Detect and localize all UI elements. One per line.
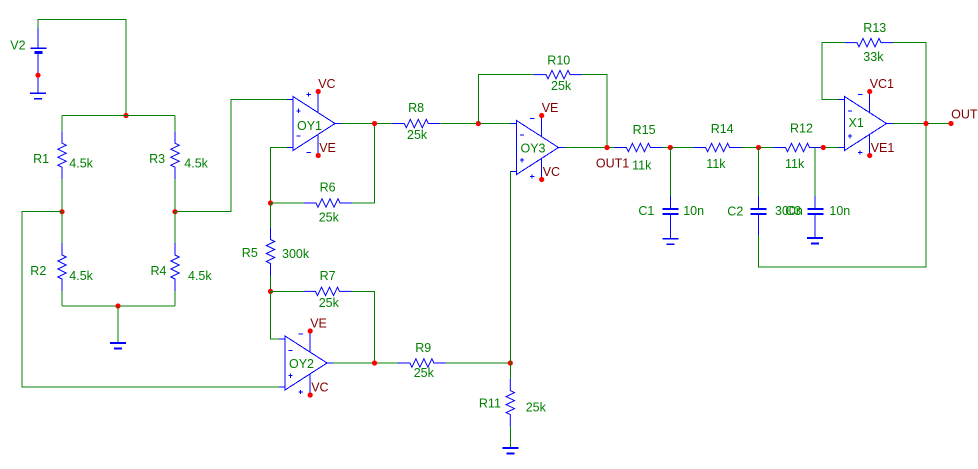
svg-text:4.5k: 4.5k — [188, 269, 212, 283]
svg-text:R1: R1 — [33, 152, 49, 166]
svg-text:V2: V2 — [10, 38, 25, 52]
wire R3 top lead — [174, 116, 176, 132]
wire bridge bottom — [62, 305, 175, 307]
op-amp OY2 inner marks — [288, 349, 292, 351]
junction dot bridge bottom — [115, 303, 120, 308]
power pin dot VC — [539, 177, 544, 182]
svg-text:10n: 10n — [829, 204, 850, 218]
ground below C1 — [669, 237, 671, 240]
wire R1 top lead — [61, 116, 63, 132]
resistor R15 — [614, 143, 662, 151]
ground below C3 — [814, 236, 816, 239]
wire node I down to C3 — [814, 148, 816, 197]
svg-text:OUT1: OUT1 — [596, 157, 629, 171]
svg-text:C1: C1 — [638, 204, 654, 218]
junction dot node E (R5/R7) — [268, 289, 273, 294]
junction dot V2 minus — [35, 73, 40, 78]
wire R14 to R12 — [742, 147, 774, 149]
wire node D up to R10 — [478, 75, 534, 124]
svg-text:25k: 25k — [551, 79, 572, 93]
wire node E to OY2 - input — [271, 291, 280, 339]
wire node E to R7 — [271, 290, 304, 292]
junction dot node H (C2) — [756, 145, 761, 150]
svg-text:R2: R2 — [30, 264, 46, 278]
op-amp OY2 triangle — [285, 336, 327, 390]
svg-text:11k: 11k — [785, 157, 805, 171]
svg-text:25k: 25k — [319, 296, 340, 310]
battery V2 — [37, 28, 39, 48]
svg-text:25k: 25k — [526, 401, 547, 415]
wire R13 to X1 output — [893, 43, 926, 124]
svg-text:OY1: OY1 — [297, 119, 322, 133]
svg-text:R12: R12 — [790, 122, 813, 136]
op-amp OY1 output stub — [335, 123, 341, 125]
op-amp X1 top power pin — [869, 92, 871, 113]
junction dot OY2 output — [372, 360, 377, 365]
svg-text:11k: 11k — [706, 157, 726, 171]
junction dot bridge top node — [123, 113, 128, 118]
wire node B to OY1 + input — [175, 100, 287, 212]
svg-text:OUT: OUT — [951, 108, 978, 122]
wire C2 bottom to X1 output (feedback) — [759, 124, 927, 268]
power pin dot VC — [308, 392, 313, 397]
svg-text:VE1: VE1 — [871, 141, 895, 155]
op-amp OY2 input stubs — [279, 339, 285, 387]
capacitor C2 — [758, 196, 760, 208]
wire R3 bottom lead — [174, 179, 176, 212]
wire R4 bottom lead — [174, 291, 176, 306]
op-amp X1 bottom power pin — [869, 134, 871, 155]
op-amp OY1 input stubs — [287, 100, 293, 148]
svg-text:C3: C3 — [785, 204, 801, 218]
power pin dot VE — [316, 153, 321, 158]
op-amp X1 output stub — [887, 123, 893, 125]
wire R1 bottom lead — [61, 179, 63, 212]
svg-text:R3: R3 — [149, 152, 165, 166]
svg-text:4.5k: 4.5k — [69, 157, 93, 171]
wire node F to R11 — [509, 363, 511, 379]
op-amp X1 triangle — [845, 97, 887, 151]
op-amp OY3 input stubs — [511, 124, 517, 172]
svg-text:VE: VE — [542, 101, 559, 115]
svg-text:VE: VE — [310, 317, 327, 331]
wire OY1 - input to node C — [271, 148, 288, 204]
svg-text:R7: R7 — [320, 269, 336, 283]
ground below R11 — [509, 447, 511, 448]
resistor R14 — [694, 143, 742, 151]
wire R11 to ground — [509, 427, 511, 447]
wire R6 to OY1 output — [352, 124, 375, 204]
op-amp OY3 bottom power pin — [541, 158, 543, 179]
svg-text:33k: 33k — [863, 50, 884, 64]
junction dot OUT terminal — [948, 121, 953, 126]
wire R10 to OY3 output — [582, 75, 607, 148]
op-amp X1 inner marks — [848, 110, 852, 112]
capacitor C1 — [669, 196, 671, 208]
op-amp OY2 bottom power pin — [309, 374, 311, 395]
svg-text:300k: 300k — [282, 247, 310, 261]
svg-text:OY3: OY3 — [521, 142, 546, 156]
svg-text:R14: R14 — [711, 122, 734, 136]
op-amp OY2 top power pin — [309, 331, 311, 352]
power pin dot VE1 — [867, 153, 872, 158]
junction dot node A (R1/R2) — [59, 209, 64, 214]
wire OY3 output — [565, 147, 615, 149]
svg-text:25k: 25k — [414, 366, 435, 380]
wire R12 to X1 + input — [822, 147, 839, 149]
op-amp OY1 bottom power pin — [317, 134, 319, 155]
junction dot OY3 output — [604, 145, 609, 150]
wire node C to R6 — [271, 202, 305, 204]
svg-text:X1: X1 — [849, 116, 864, 130]
wire R2 top lead — [61, 212, 63, 243]
svg-text:11k: 11k — [632, 159, 652, 173]
resistor R3 — [171, 131, 179, 179]
svg-text:VC: VC — [311, 381, 328, 395]
wire X1 output — [893, 123, 952, 125]
capacitor C3 — [814, 196, 816, 208]
resistor R12 — [774, 143, 822, 151]
wire node F to OY3 + input — [509, 172, 511, 364]
op-amp OY1 inner marks — [296, 109, 300, 113]
resistor R10 — [534, 70, 582, 78]
resistor R9 — [398, 359, 446, 367]
resistor R1 — [58, 131, 66, 179]
wire node H down to C2 — [758, 148, 760, 197]
op-amp X1 input stubs — [839, 100, 845, 148]
wire node C to R5 — [270, 203, 272, 228]
svg-text:VC1: VC1 — [870, 77, 894, 91]
svg-text:R9: R9 — [415, 341, 431, 355]
wire node G down to C1 — [669, 148, 671, 197]
power pin dot VC1 — [867, 89, 872, 94]
op-amp OY1 top power pin — [317, 92, 319, 113]
svg-text:4.5k: 4.5k — [69, 269, 93, 283]
svg-text:VE: VE — [319, 141, 336, 155]
svg-text:R13: R13 — [863, 21, 886, 35]
power pin dot VE — [539, 113, 544, 118]
svg-text:R10: R10 — [547, 54, 570, 68]
svg-text:10n: 10n — [683, 204, 704, 218]
op-amp OY3 inner marks — [520, 134, 524, 136]
svg-text:R15: R15 — [633, 123, 656, 137]
op-amp OY3 top power pin — [541, 116, 543, 137]
svg-text:R5: R5 — [242, 246, 258, 260]
junction dot node C (R5/R6) — [268, 200, 273, 205]
svg-text:R6: R6 — [320, 181, 336, 195]
wire R9 to node F — [446, 362, 510, 364]
resistor R7 — [304, 287, 352, 295]
wire R15 to R14 — [662, 147, 693, 149]
wire node A to OY2 + input — [22, 212, 279, 387]
svg-text:4.5k: 4.5k — [184, 157, 208, 171]
svg-text:VC: VC — [318, 77, 335, 91]
svg-text:VC: VC — [543, 165, 560, 179]
svg-text:C2: C2 — [727, 205, 743, 219]
power pin dot VC — [316, 89, 321, 94]
wire R8 to OY3 - input — [440, 123, 510, 125]
resistor R5 — [266, 228, 274, 276]
ground below V2 — [30, 92, 46, 94]
junction dot OY1 output — [372, 121, 377, 126]
resistor R6 — [304, 199, 352, 207]
resistor R8 — [392, 119, 440, 127]
junction dot X1 output — [923, 121, 928, 126]
wire R5 to node E — [270, 276, 272, 292]
junction dot node B (R3/R4) — [172, 209, 177, 214]
resistor R13 — [845, 38, 893, 46]
resistor R2 — [58, 243, 66, 291]
op-amp OY2 output stub — [327, 362, 333, 364]
resistor R11 — [506, 379, 514, 427]
svg-text:R4: R4 — [151, 264, 167, 278]
junction dot node F (R9/R11/OY3+) — [508, 360, 513, 365]
svg-text:25k: 25k — [407, 128, 428, 142]
ground below bridge — [117, 306, 119, 343]
wire X1 - input to R13 — [822, 43, 845, 100]
wire R2 bottom lead — [61, 291, 63, 306]
svg-text:R11: R11 — [479, 397, 501, 411]
wire OY2 output — [333, 362, 398, 364]
resistor R4 — [171, 243, 179, 291]
junction dot node D (R8/R10/OY3-) — [476, 121, 481, 126]
wire R7 to OY2 output — [352, 291, 375, 363]
junction dot node G (C1) — [668, 145, 673, 150]
svg-text:OY2: OY2 — [289, 357, 314, 371]
op-amp OY3 triangle — [517, 121, 559, 175]
junction dot node I (C3/X1+) — [821, 145, 826, 150]
svg-text:R8: R8 — [408, 101, 424, 115]
wire V2 top to bridge — [38, 20, 126, 116]
op-amp OY3 output stub — [559, 147, 565, 149]
wire OY1 output — [341, 123, 392, 125]
power pin dot VE — [308, 328, 313, 333]
svg-text:25k: 25k — [319, 211, 340, 225]
op-amp OY1 triangle — [293, 97, 335, 151]
wire bridge top — [62, 115, 175, 117]
wire R4 top lead — [174, 212, 176, 243]
